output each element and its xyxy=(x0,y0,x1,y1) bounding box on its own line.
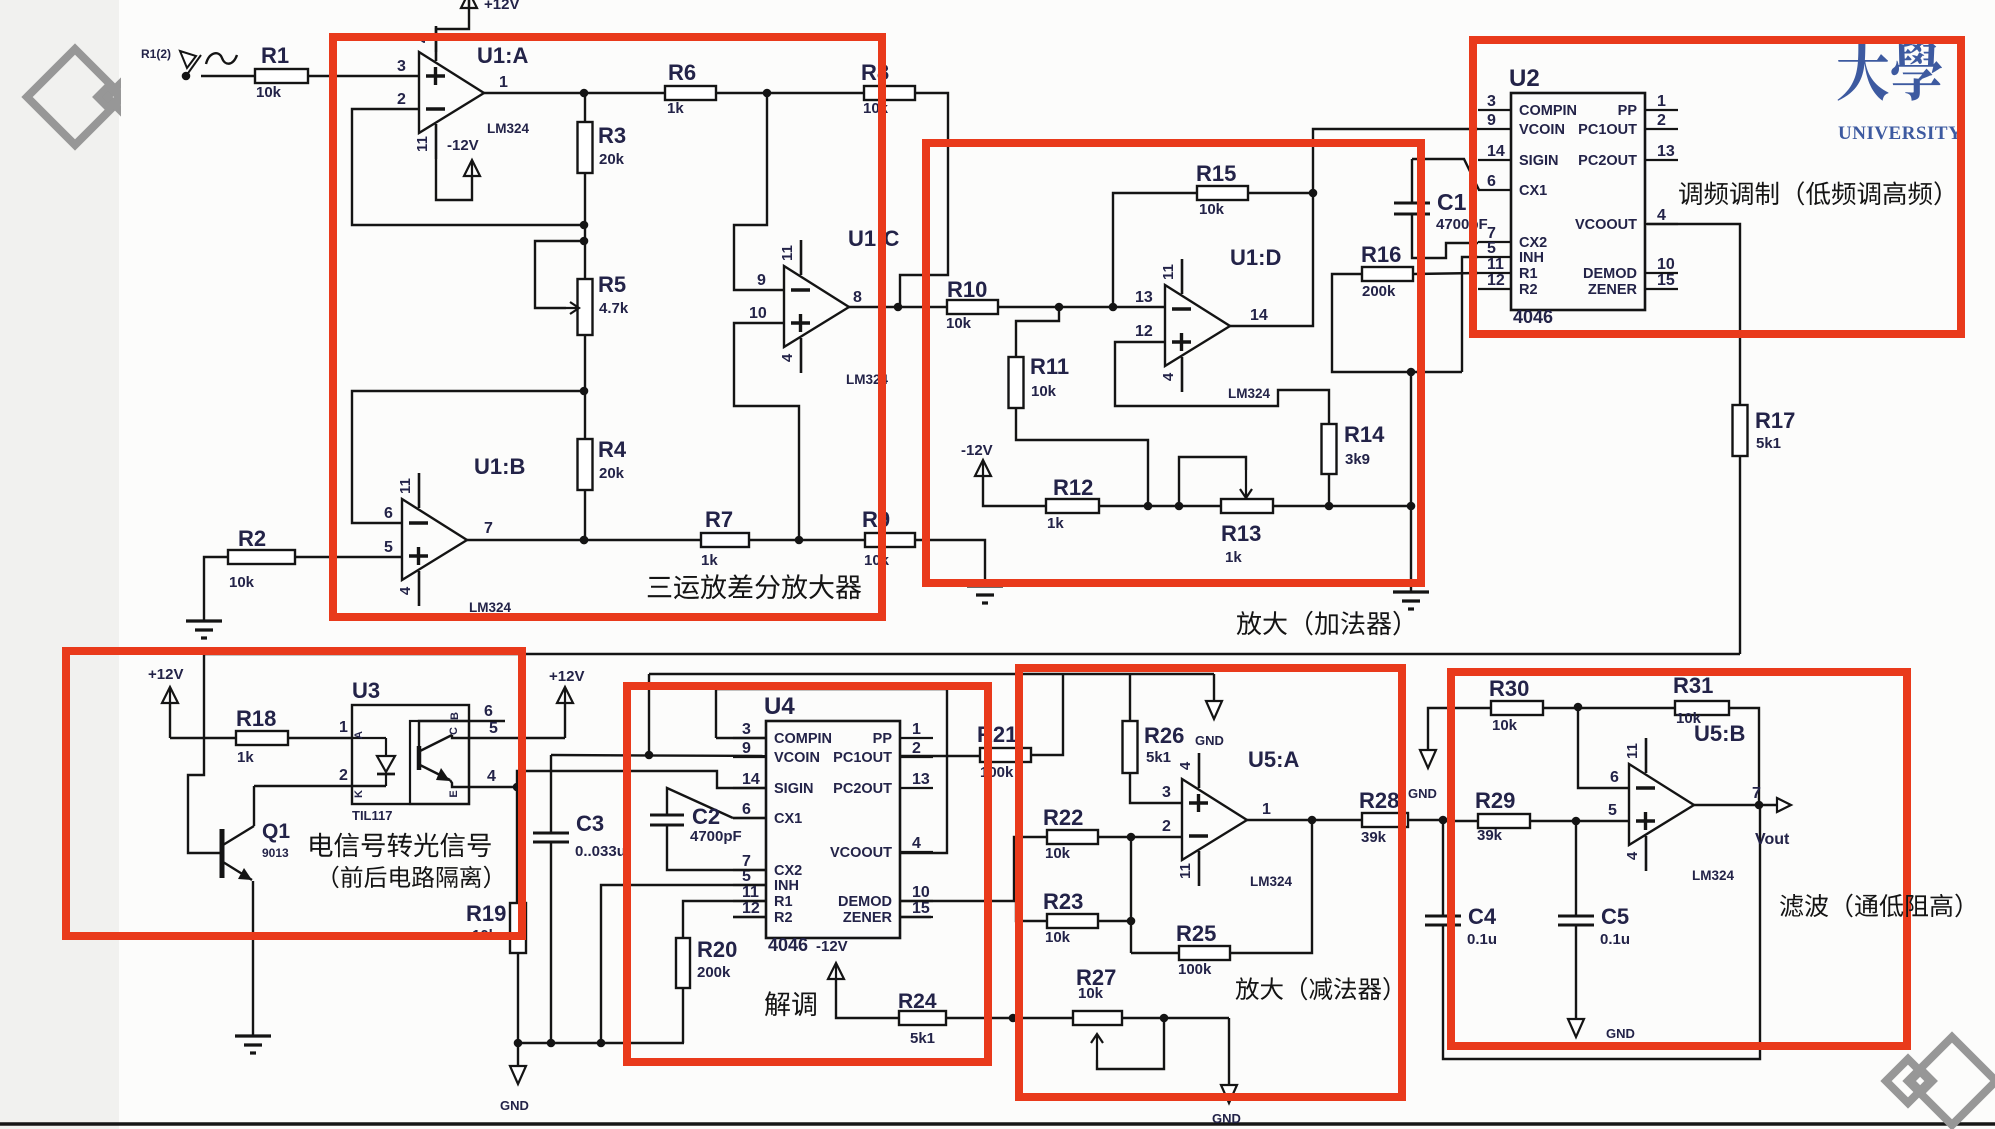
wire U1:D output to U2 VCOIN xyxy=(1230,129,1478,326)
svg-text:R10: R10 xyxy=(947,277,987,302)
svg-text:-12V: -12V xyxy=(816,938,848,955)
svg-text:2: 2 xyxy=(397,91,406,108)
svg-text:10k: 10k xyxy=(1045,929,1071,946)
wire U3 pin 6 stub xyxy=(469,703,505,721)
resistor R22 xyxy=(1043,805,1098,862)
svg-text:CX1: CX1 xyxy=(1519,183,1547,199)
svg-text:13: 13 xyxy=(1135,289,1153,306)
svg-text:R22: R22 xyxy=(1043,805,1083,830)
op-amp U5:B xyxy=(1624,721,1761,883)
svg-text:LM324: LM324 xyxy=(1228,386,1271,401)
wire U1:D pin 12 to R14 xyxy=(1115,323,1329,424)
wire R24 to R27 xyxy=(946,1014,1073,1023)
resistor R4 xyxy=(578,437,627,490)
svg-text:GND: GND xyxy=(1606,1026,1635,1041)
svg-text:9: 9 xyxy=(757,272,766,289)
svg-text:11: 11 xyxy=(1160,264,1177,280)
svg-text:R25: R25 xyxy=(1176,921,1216,946)
svg-text:5: 5 xyxy=(489,720,498,737)
svg-text:10k: 10k xyxy=(1078,985,1104,1002)
svg-text:+12V: +12V xyxy=(484,0,519,13)
svg-text:3: 3 xyxy=(397,58,406,75)
label lvbo xyxy=(1780,894,1962,918)
svg-text:10k: 10k xyxy=(946,315,972,332)
svg-text:4046: 4046 xyxy=(1513,307,1553,327)
wire U3 pin 5 to +12V xyxy=(469,720,565,738)
svg-text:1k: 1k xyxy=(237,749,254,766)
capacitor C2 xyxy=(650,788,766,870)
svg-text:6: 6 xyxy=(484,703,493,720)
svg-text:11: 11 xyxy=(1177,863,1194,879)
resistor R17 xyxy=(1733,405,1796,456)
svg-text:R5: R5 xyxy=(598,272,626,297)
svg-text:6: 6 xyxy=(384,505,393,522)
label san yunfang chafen fangdaqi xyxy=(648,574,861,599)
svg-text:2: 2 xyxy=(339,767,348,784)
svg-text:DEMOD: DEMOD xyxy=(838,894,892,910)
svg-text:39k: 39k xyxy=(1477,827,1503,844)
resistor R18 xyxy=(236,706,288,766)
svg-text:4: 4 xyxy=(779,353,796,362)
resistor R2 xyxy=(228,526,295,591)
university logo text xyxy=(1838,41,1963,144)
svg-text:LM324: LM324 xyxy=(469,600,512,615)
wire R5 to R4 xyxy=(580,335,589,439)
svg-text:Q1: Q1 xyxy=(262,820,290,843)
svg-text:LM324: LM324 xyxy=(1250,874,1293,889)
wire input to R1 xyxy=(201,75,255,77)
svg-text:LM324: LM324 xyxy=(487,121,530,136)
svg-text:14: 14 xyxy=(742,771,760,788)
wire R1 to U1:A pin 3 xyxy=(308,58,419,76)
capacitor C3 xyxy=(533,755,626,1043)
svg-text:DEMOD: DEMOD xyxy=(1583,266,1637,282)
op-amp U1:C xyxy=(779,226,899,387)
svg-text:5: 5 xyxy=(1487,240,1496,257)
op-amp U1:A xyxy=(414,26,530,159)
resistor R16 xyxy=(1332,242,1462,372)
svg-text:R31: R31 xyxy=(1673,673,1713,698)
resistor R6 xyxy=(665,60,716,117)
wire R21 up to loop rail xyxy=(1031,674,1063,755)
svg-text:200k: 200k xyxy=(1362,283,1396,300)
svg-text:PC1OUT: PC1OUT xyxy=(1578,122,1637,138)
svg-text:VCOIN: VCOIN xyxy=(1519,122,1565,138)
power -12V at R12 xyxy=(961,442,1046,506)
svg-text:1: 1 xyxy=(912,721,921,738)
label dianxinhao zhuan guangxinhao xyxy=(310,833,490,889)
svg-text:C4: C4 xyxy=(1468,904,1497,929)
logo diamond top-left xyxy=(27,49,163,145)
wire INH to gnd rail xyxy=(601,885,767,1043)
svg-text:R30: R30 xyxy=(1489,676,1529,701)
svg-text:TIL117: TIL117 xyxy=(352,808,392,823)
wire R17 to rail xyxy=(1739,456,1741,654)
svg-text:U4: U4 xyxy=(764,693,795,720)
svg-text:R12: R12 xyxy=(1053,475,1093,500)
svg-text:R3: R3 xyxy=(598,123,626,148)
resistor R26 xyxy=(1123,674,1185,773)
resistor R23 xyxy=(1043,889,1098,946)
label -12V under U4 xyxy=(816,938,848,955)
svg-text:9: 9 xyxy=(1487,112,1496,129)
svg-text:U5:A: U5:A xyxy=(1248,747,1299,772)
svg-text:COMPIN: COMPIN xyxy=(774,731,832,747)
svg-text:U1:B: U1:B xyxy=(474,454,525,479)
svg-text:14: 14 xyxy=(1250,307,1268,324)
terminal Vout xyxy=(1755,798,1791,848)
resistor R9 xyxy=(862,507,915,569)
svg-text:10: 10 xyxy=(1657,256,1675,273)
svg-text:10k: 10k xyxy=(256,84,282,101)
wire R11 to summing rail xyxy=(1016,408,1148,506)
svg-text:0..033u: 0..033u xyxy=(575,843,626,860)
red box adder amplifier xyxy=(926,143,1421,583)
power +12V to U3 pin 5 xyxy=(549,668,584,738)
resistor R15 xyxy=(1196,161,1248,218)
svg-text:R1: R1 xyxy=(261,43,289,68)
svg-text:R20: R20 xyxy=(697,937,737,962)
resistor R20 xyxy=(676,901,766,988)
potentiometer R13 xyxy=(1179,457,1273,566)
wire C4 bottom loop xyxy=(1443,805,1760,1059)
gnd arrow at R30 left xyxy=(1408,708,1491,801)
svg-text:10k: 10k xyxy=(1031,383,1057,400)
wire R2 to ground xyxy=(204,557,228,621)
potentiometer R5 xyxy=(535,241,629,335)
wire Q1 collector to U3 pin 2 xyxy=(254,767,386,786)
svg-text:C: C xyxy=(448,727,460,735)
svg-text:4: 4 xyxy=(912,835,921,852)
wire ZENER stub xyxy=(900,916,931,918)
svg-text:1: 1 xyxy=(499,74,508,91)
wire R6 to R8 xyxy=(716,89,864,98)
svg-text:13: 13 xyxy=(1657,143,1675,160)
svg-text:4046: 4046 xyxy=(768,935,808,955)
wire VCOIN row xyxy=(551,751,766,760)
wire DEMOD to R22 R23 xyxy=(900,837,1047,921)
op-amp U1:B xyxy=(397,454,525,615)
IC U2 4046 xyxy=(1478,65,1678,327)
svg-text:GND: GND xyxy=(1408,786,1437,801)
svg-text:2: 2 xyxy=(1162,818,1171,835)
svg-text:-12V: -12V xyxy=(447,137,479,154)
power +12V for R18 xyxy=(148,666,183,738)
svg-text:R11: R11 xyxy=(1030,354,1069,379)
resistor R12 xyxy=(1046,475,1099,532)
wire rail to Q1 base xyxy=(188,654,220,853)
svg-text:11: 11 xyxy=(1624,743,1641,759)
svg-text:CX2: CX2 xyxy=(1519,235,1547,251)
svg-text:1: 1 xyxy=(339,719,348,736)
op-amp U5:A xyxy=(1177,747,1299,889)
svg-text:5k1: 5k1 xyxy=(1756,435,1781,452)
svg-text:2: 2 xyxy=(912,740,921,757)
red box FM modulation xyxy=(1473,40,1961,334)
svg-text:U1:D: U1:D xyxy=(1230,245,1281,270)
svg-text:10k: 10k xyxy=(1199,201,1225,218)
label jietiao xyxy=(765,991,816,1016)
wire rail down to ground xyxy=(1407,368,1416,592)
logo diamond bottom-right xyxy=(1886,1037,1995,1125)
svg-text:VCOOUT: VCOOUT xyxy=(1575,217,1637,233)
svg-text:R1: R1 xyxy=(1519,266,1538,282)
label tiaopin tiaozhi xyxy=(1679,181,1941,205)
wire R23 to node xyxy=(1098,917,1135,926)
svg-text:R6: R6 xyxy=(668,60,696,85)
svg-text:R19: R19 xyxy=(466,901,506,926)
power -12V below U4 xyxy=(828,963,899,1018)
wire U4 COMPIN-VCOOUT jumper xyxy=(716,689,947,853)
svg-text:1k: 1k xyxy=(701,552,718,569)
svg-text:1k: 1k xyxy=(1225,549,1242,566)
svg-text:11: 11 xyxy=(742,884,759,901)
wire U2 VCOOUT to R17 xyxy=(1647,224,1740,405)
svg-text:COMPIN: COMPIN xyxy=(1519,103,1577,119)
wire signal rail from R17 to Q1 base column xyxy=(204,653,1740,655)
svg-text:R1: R1 xyxy=(774,894,793,910)
wire junction to U5:B pin 6 xyxy=(1578,707,1629,788)
svg-text:PC1OUT: PC1OUT xyxy=(833,750,892,766)
wire U1:B pin 6 feedback xyxy=(352,391,584,523)
svg-text:1k: 1k xyxy=(1047,515,1064,532)
svg-text:E: E xyxy=(448,790,460,797)
svg-text:GND: GND xyxy=(1212,1111,1241,1126)
wire +12V to R18 xyxy=(170,737,236,739)
gnd arrow top box6 xyxy=(1195,674,1224,748)
svg-text:14: 14 xyxy=(1487,143,1505,160)
svg-text:11: 11 xyxy=(1487,256,1504,273)
optocoupler U3 xyxy=(352,678,469,823)
svg-text:1k: 1k xyxy=(667,100,684,117)
potentiometer R27 xyxy=(1073,965,1164,1069)
svg-text:ZENER: ZENER xyxy=(1588,282,1638,298)
wire R14 to rail xyxy=(1328,474,1330,506)
wire R25 to output xyxy=(1230,820,1312,953)
svg-text:5: 5 xyxy=(1608,802,1617,819)
svg-text:10: 10 xyxy=(749,305,767,322)
svg-text:R17: R17 xyxy=(1755,408,1795,433)
svg-text:R26: R26 xyxy=(1144,723,1184,748)
label fangda jiafaqi xyxy=(1237,611,1400,636)
svg-text:R21: R21 xyxy=(977,722,1017,747)
svg-text:+12V: +12V xyxy=(549,668,584,685)
wire pin4 to U4 SIGIN xyxy=(517,771,767,788)
svg-text:R28: R28 xyxy=(1359,788,1399,813)
svg-text:13: 13 xyxy=(912,771,930,788)
svg-text:100k: 100k xyxy=(1178,961,1212,978)
ground below R9 xyxy=(967,586,1003,603)
resistor R24 xyxy=(898,990,946,1047)
svg-text:A: A xyxy=(353,731,365,739)
gnd rail bottom left xyxy=(514,1039,684,1048)
svg-text:U2: U2 xyxy=(1509,65,1540,92)
svg-text:1: 1 xyxy=(1657,93,1666,110)
ground below R2 xyxy=(186,621,222,638)
wire U1:B output to R7 xyxy=(467,536,701,545)
svg-text:K: K xyxy=(353,790,365,798)
svg-text:SIGIN: SIGIN xyxy=(774,781,813,797)
wire U3 pin 4 node xyxy=(469,768,521,791)
wire R31 to output riser xyxy=(1729,708,1759,805)
svg-text:R14: R14 xyxy=(1344,422,1385,447)
svg-text:12: 12 xyxy=(742,900,760,917)
wire R20 to gnd rail xyxy=(682,988,684,1043)
resistor R11 xyxy=(1009,307,1070,408)
svg-text:4: 4 xyxy=(1624,851,1641,860)
svg-text:4700pF: 4700pF xyxy=(1436,216,1488,233)
svg-text:20k: 20k xyxy=(599,465,625,482)
svg-text:0.1u: 0.1u xyxy=(1600,931,1630,948)
svg-text:VCOIN: VCOIN xyxy=(774,750,820,766)
svg-text:4: 4 xyxy=(1657,207,1666,224)
red box electric-to-optical xyxy=(66,651,522,936)
resistor R7 xyxy=(701,507,749,569)
wire R2 to U1:B pin 5 xyxy=(295,539,402,557)
svg-text:200k: 200k xyxy=(697,964,731,981)
svg-text:12: 12 xyxy=(1135,323,1153,340)
svg-text:4: 4 xyxy=(1160,372,1177,381)
resistor R25 xyxy=(1131,921,1230,978)
resistor R3 xyxy=(578,93,627,225)
svg-text:R29: R29 xyxy=(1475,788,1515,813)
red box demodulation xyxy=(627,686,988,1062)
svg-text:15: 15 xyxy=(912,900,930,917)
resistor R29 xyxy=(1443,788,1530,844)
power -12V at U1:A pin 11 xyxy=(436,137,480,200)
wire U1:A output to R6 xyxy=(484,89,665,98)
svg-text:ZENER: ZENER xyxy=(843,910,893,926)
svg-text:15: 15 xyxy=(1657,272,1675,289)
svg-text:R13: R13 xyxy=(1221,521,1261,546)
resistor R31 xyxy=(1673,673,1729,727)
wire Q1 emitter to ground xyxy=(252,881,254,1036)
svg-text:U5:B: U5:B xyxy=(1694,721,1745,746)
svg-text:C2: C2 xyxy=(692,804,720,829)
wire node to U1:C pin 9 xyxy=(734,93,784,290)
svg-text:5: 5 xyxy=(384,539,393,556)
wire R26 to U5:A pin 3 xyxy=(1130,773,1182,803)
resistor R21 xyxy=(977,722,1031,781)
wire R4 bottom to U1:B output row xyxy=(580,490,589,544)
svg-text:Vout: Vout xyxy=(1755,831,1790,848)
wire R15 left branch xyxy=(1113,193,1197,307)
svg-text:PP: PP xyxy=(873,731,893,747)
svg-text:C5: C5 xyxy=(1601,904,1629,929)
svg-text:PC2OUT: PC2OUT xyxy=(1578,153,1637,169)
svg-text:4.7k: 4.7k xyxy=(599,300,629,317)
ground below box2 xyxy=(1393,592,1429,609)
svg-text:3: 3 xyxy=(1162,784,1171,801)
wire R22 to U5:A pin 2 xyxy=(1098,818,1182,841)
svg-text:7: 7 xyxy=(484,520,493,537)
svg-text:SIGIN: SIGIN xyxy=(1519,153,1558,169)
gnd arrow below rail xyxy=(500,1043,529,1113)
svg-text:6: 6 xyxy=(742,801,751,818)
svg-text:0.1u: 0.1u xyxy=(1467,931,1497,948)
svg-text:R18: R18 xyxy=(236,706,276,731)
power +12V to U1:A pin 4 xyxy=(436,0,519,52)
capacitor C4 xyxy=(1425,820,1497,948)
wire U1:C output to R10 xyxy=(849,303,947,312)
svg-text:B: B xyxy=(449,712,461,720)
node input terminal with signal source R1(2) xyxy=(141,47,237,80)
svg-text:R24: R24 xyxy=(898,990,937,1013)
wire R15 right to VCOIN rail xyxy=(1248,189,1317,198)
wire R13 to ground branch xyxy=(1273,502,1415,511)
wire PC1OUT to R21 xyxy=(900,755,980,757)
wire R27 to gnd xyxy=(1122,1014,1229,1023)
svg-text:4: 4 xyxy=(487,768,496,785)
svg-text:11: 11 xyxy=(779,245,796,261)
svg-text:C1: C1 xyxy=(1437,189,1467,215)
svg-text:5k1: 5k1 xyxy=(910,1030,935,1047)
wire R16 right to U2 R1 pin xyxy=(1413,273,1478,274)
wire U4 R2 stub xyxy=(733,916,766,918)
svg-text:+12V: +12V xyxy=(148,666,183,683)
svg-text:R2: R2 xyxy=(238,526,266,551)
gnd arrow below R27 xyxy=(1212,1018,1241,1126)
svg-text:2: 2 xyxy=(1657,112,1666,129)
svg-text:8: 8 xyxy=(853,289,862,306)
svg-text:R23: R23 xyxy=(1043,889,1083,914)
resistor R8 xyxy=(861,60,915,117)
svg-text:10k: 10k xyxy=(229,574,255,591)
svg-text:INH: INH xyxy=(1519,250,1544,266)
resistor R30 xyxy=(1489,676,1543,734)
svg-text:UNIVERSITY: UNIVERSITY xyxy=(1838,123,1962,144)
svg-text:R4: R4 xyxy=(598,437,627,462)
svg-text:11: 11 xyxy=(414,136,431,152)
svg-text:R16: R16 xyxy=(1361,242,1401,267)
wire R10 to U1:D pin 13 xyxy=(998,289,1165,311)
svg-text:12: 12 xyxy=(1487,272,1505,289)
svg-text:6: 6 xyxy=(1487,173,1496,190)
svg-text:R1(2): R1(2) xyxy=(141,47,171,61)
resistor R19 xyxy=(466,787,526,953)
svg-text:CX1: CX1 xyxy=(774,811,802,827)
svg-text:9: 9 xyxy=(742,740,751,757)
capacitor C5 xyxy=(1558,821,1630,948)
resistor R10 xyxy=(946,277,998,332)
red box subtractor amplifier xyxy=(1019,668,1402,1097)
svg-text:10k: 10k xyxy=(1045,845,1071,862)
wire R7 to R9 xyxy=(749,536,865,545)
svg-text:PP: PP xyxy=(1618,103,1638,119)
bottom border line xyxy=(0,1122,1995,1126)
svg-text:9013: 9013 xyxy=(262,846,289,860)
svg-text:R7: R7 xyxy=(705,507,733,532)
svg-text:20k: 20k xyxy=(599,151,625,168)
svg-text:10: 10 xyxy=(912,884,930,901)
svg-text:3: 3 xyxy=(1487,93,1496,110)
svg-text:1: 1 xyxy=(1262,801,1271,818)
svg-text:C3: C3 xyxy=(576,811,604,836)
wire R12 to R13 xyxy=(1099,502,1221,511)
svg-text:6: 6 xyxy=(1610,769,1619,786)
svg-text:3k9: 3k9 xyxy=(1345,451,1370,468)
ground below Q1 xyxy=(235,1036,271,1053)
svg-text:R15: R15 xyxy=(1196,161,1236,186)
wire R19 to gnd rail xyxy=(517,953,519,1043)
svg-text:VCOOUT: VCOOUT xyxy=(830,845,892,861)
transistor Q1 xyxy=(222,786,290,880)
wire R29 to U5:B pin 5 xyxy=(1530,802,1629,825)
svg-text:GND: GND xyxy=(1195,733,1224,748)
wire inverting node riser xyxy=(1130,837,1132,953)
resistor R14 xyxy=(1322,422,1386,474)
wire R18 to U3 pin 1 xyxy=(288,719,352,738)
